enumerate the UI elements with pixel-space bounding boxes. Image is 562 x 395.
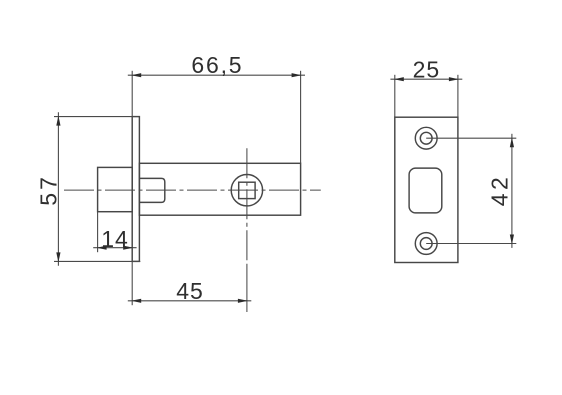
arrow 25 left [394, 77, 404, 81]
spindle circle [231, 175, 262, 206]
dim 45 extension line right (centerline extension) [246, 265, 248, 312]
arrow 66,5 right [292, 73, 302, 77]
dim 25 extension line right [457, 75, 459, 117]
top screw hole inner [420, 132, 432, 144]
svg-text:57: 57 [35, 174, 61, 206]
bottom screw hole outer [415, 233, 437, 255]
follower boss [139, 178, 164, 202]
svg-text:42: 42 [486, 174, 512, 207]
strike plate front view [395, 117, 458, 262]
faceplate side view [132, 117, 139, 262]
dim 57 extension line top [54, 116, 132, 118]
arrow 14 right [123, 246, 133, 250]
bottom screw hole inner [420, 238, 432, 250]
svg-text:25: 25 [413, 57, 441, 83]
dim 66,5 extension line left [131, 71, 133, 117]
dim 42 extension line bottom [426, 243, 516, 245]
dim 57 extension line bottom [54, 260, 140, 262]
vertical centerline [246, 148, 248, 265]
svg-text:45: 45 [176, 278, 204, 304]
arrow 45 right [238, 299, 248, 303]
arrow 42 bottom [510, 235, 514, 245]
arrow 45 left [131, 299, 141, 303]
dim 25 extension line left [394, 75, 396, 117]
latch opening [409, 168, 442, 213]
spindle square hole [239, 182, 255, 198]
svg-text:14: 14 [101, 226, 129, 252]
dim 14 extension line left [97, 212, 99, 253]
dim 57 dimension line [57, 112, 59, 266]
dim 45 dimension line [128, 300, 252, 302]
svg-text:66,5: 66,5 [191, 52, 243, 78]
dim 25 dimension line [390, 78, 462, 80]
arrow 14 left [97, 246, 107, 250]
dim 66,5 dimension line [128, 74, 305, 76]
arrow 57 bottom [56, 252, 60, 262]
dim 14 dimension line [93, 247, 136, 249]
horizontal centerline [64, 189, 321, 191]
dim 42 dimension line [511, 134, 513, 248]
arrow 25 right [449, 77, 459, 81]
latch body [139, 163, 300, 215]
dim 66,5 extension line right [300, 71, 302, 164]
latch bolt [98, 167, 133, 211]
arrow 57 top [56, 116, 60, 126]
dim 45 extension line left [131, 261, 133, 305]
arrow 66,5 left [131, 73, 141, 77]
top screw hole outer [415, 127, 437, 149]
dim 42 extension line top [426, 137, 516, 139]
arrow 42 top [510, 137, 514, 147]
